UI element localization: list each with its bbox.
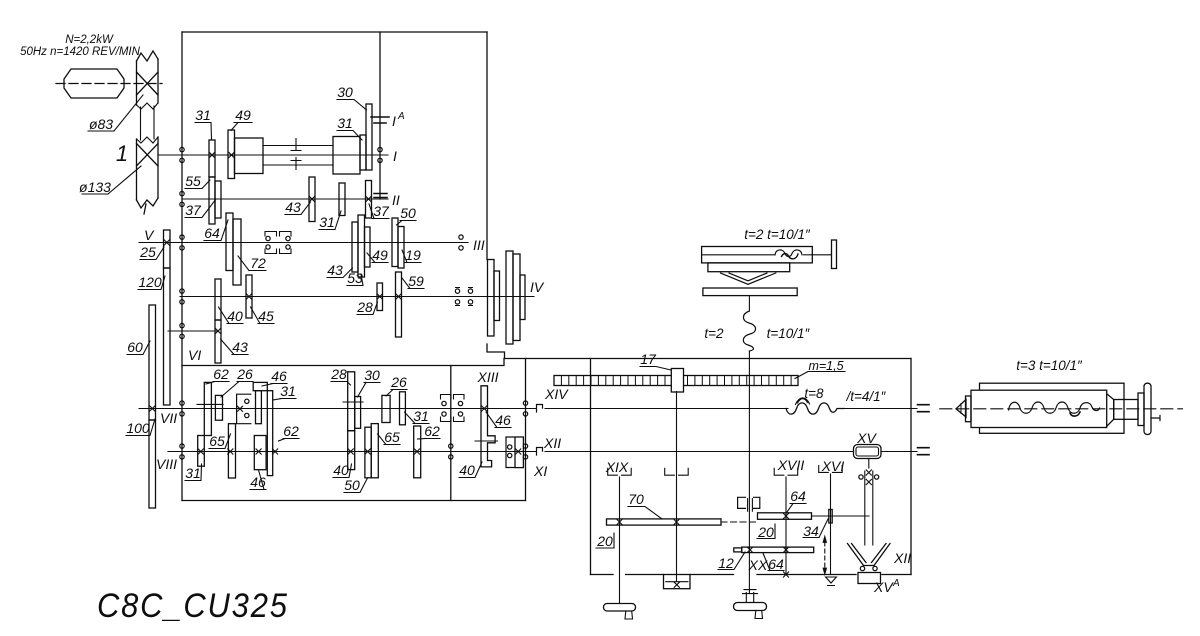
bearings XIV/XII at feed box right wall — [523, 401, 527, 416]
svg-text:28: 28 — [330, 366, 347, 382]
belt top break zigzag — [137, 51, 159, 61]
double dog clutch on shaft III — [265, 232, 291, 254]
gear 62 on VIII right — [414, 426, 421, 478]
right cone — [1107, 394, 1114, 427]
svg-text:/t=4/1″: /t=4/1″ — [846, 389, 887, 404]
dashed centerline — [940, 408, 1183, 410]
break marks end of XIV — [918, 405, 930, 412]
svg-text:72: 72 — [250, 255, 266, 271]
motor M1 body — [64, 69, 124, 98]
svg-text:C8C_CU325: C8C_CU325 — [97, 587, 289, 625]
svg-text:VI: VI — [188, 347, 201, 363]
svg-text:17: 17 — [640, 351, 657, 367]
fixed marks on shaft II — [309, 196, 314, 201]
gear 46 on VIII — [254, 436, 266, 470]
gear 43 on shaft II — [309, 177, 315, 222]
shaft VI stub — [168, 330, 219, 332]
svg-text:64: 64 — [204, 225, 220, 241]
hanger bracket shaft XVIII — [665, 468, 689, 475]
svg-text:100: 100 — [126, 420, 150, 436]
svg-text:31: 31 — [280, 383, 296, 399]
svg-text:34: 34 — [803, 523, 819, 539]
svg-text:31: 31 — [319, 214, 335, 230]
svg-text:62: 62 — [424, 423, 440, 439]
screw line inside — [702, 254, 775, 256]
worm housing box at bottom — [664, 575, 691, 589]
center point triangle — [956, 400, 966, 418]
svg-text:31: 31 — [337, 115, 353, 131]
svg-text:25: 25 — [139, 244, 156, 260]
lower bar left stub 12 — [734, 548, 742, 552]
svg-text:46: 46 — [495, 412, 511, 428]
shaft VIII / XII — [168, 451, 536, 453]
feed box left wall lower part — [181, 366, 183, 501]
belt middle break — [137, 103, 159, 143]
apron left wall — [590, 359, 592, 575]
svg-text:50Hz n=1420 REV/MIN: 50Hz n=1420 REV/MIN — [20, 46, 141, 58]
svg-text:t=8: t=8 — [804, 386, 824, 401]
svg-text:I: I — [392, 113, 396, 129]
svg-text:64: 64 — [768, 556, 784, 572]
gear 49 on shaft III — [365, 227, 371, 267]
shaft I — [158, 154, 388, 156]
svg-text:XIX: XIX — [605, 459, 629, 475]
svg-text:I: I — [393, 148, 397, 164]
gear 49 on shaft I — [228, 130, 235, 179]
bearing shaft III right — [459, 235, 463, 250]
svg-text:XVI: XVI — [821, 458, 845, 474]
clutch XI block — [515, 437, 523, 468]
svg-text:37: 37 — [373, 203, 390, 219]
bearing shaft VIII at left wall — [180, 444, 184, 459]
top slide body — [702, 247, 813, 263]
svg-text:t=10/1″: t=10/1″ — [767, 326, 811, 341]
feed box right wall — [525, 359, 527, 501]
vertical shaft XIX — [619, 477, 621, 604]
svg-text:65: 65 — [384, 429, 400, 445]
svg-text:VIII: VIII — [156, 456, 177, 472]
worm XV on shaft XII — [854, 445, 882, 459]
gear 65 on VIII — [228, 424, 235, 478]
svg-text:IV: IV — [530, 279, 545, 295]
svg-text:62: 62 — [213, 366, 229, 382]
lower bar 64/XX — [742, 547, 814, 553]
screw spring t=2 horizontal — [775, 250, 802, 257]
svg-text:t=3 t=10/1″: t=3 t=10/1″ — [1016, 358, 1083, 373]
svg-text:20: 20 — [596, 533, 613, 549]
rod line to worm — [812, 515, 870, 517]
bottom block XVA — [858, 573, 881, 584]
svg-text:t=2: t=2 — [704, 326, 724, 341]
svg-text:49: 49 — [235, 107, 251, 123]
feed box top edge — [182, 359, 504, 366]
spindle chuck disc 3 — [506, 251, 513, 344]
friction clutch ticks on shaft I — [291, 139, 301, 170]
svg-text:53: 53 — [347, 270, 363, 286]
crank rod and handle — [812, 254, 831, 256]
gear XIII shaped bar — [481, 386, 495, 467]
overload clutch C-bracket on VII — [237, 394, 251, 424]
clutch hook on XII at wall — [537, 448, 543, 456]
pulley cross on motor shaft — [137, 72, 159, 95]
svg-text:XIII: XIII — [476, 369, 498, 385]
svg-text:N=2,2kW: N=2,2kW — [65, 34, 114, 46]
svg-text:30: 30 — [337, 84, 353, 100]
svg-text:65: 65 — [209, 433, 225, 449]
quill screw spring t=3 — [1009, 402, 1100, 413]
svg-text:40: 40 — [333, 462, 349, 478]
shaft tick through 62/26 — [197, 403, 223, 405]
gear 26 on VII — [215, 395, 222, 420]
svg-text:VII: VII — [160, 410, 177, 426]
internal vertical line x=450.8 — [450, 366, 452, 501]
gear 31 on VII right — [400, 392, 406, 425]
vertical worm wheel shaft — [868, 459, 870, 469]
bearing on VIII at x450.8 — [449, 444, 453, 459]
gear 26 on VII right — [382, 395, 390, 422]
gear 46 stem — [256, 391, 262, 424]
handle tick — [1151, 416, 1160, 421]
tailstock body box — [980, 383, 1125, 433]
spindle chuck disc 1 — [488, 260, 495, 337]
gear 46 top plate on VII — [253, 382, 267, 390]
stem — [1114, 400, 1138, 420]
headstock right wall lower + step to lower box — [487, 344, 505, 359]
gear 31 on shaft I — [209, 140, 215, 177]
lower-right box top edge — [505, 358, 912, 360]
gear 50 on VIII — [365, 427, 371, 478]
gear 72 on shaft III — [233, 219, 241, 285]
gear 65 on VIII right — [371, 424, 378, 478]
svg-text:XIV: XIV — [544, 386, 569, 402]
gear 43 on shaft III — [352, 222, 358, 272]
gear 100 — [149, 420, 156, 508]
gear 28 on shaft IV — [377, 283, 383, 311]
vertical shaft XVII — [785, 477, 787, 575]
svg-text:XII: XII — [543, 435, 561, 451]
headstock right wall upper — [486, 32, 488, 260]
half-nut V lever — [848, 544, 891, 566]
spindle chuck disc 4 — [513, 254, 520, 341]
svg-text:37: 37 — [185, 202, 202, 218]
quill left steps — [966, 396, 972, 422]
gear 37 left on shaft II — [215, 181, 221, 218]
coupling II bars — [374, 194, 387, 198]
hollow shaft lines between blocks — [263, 146, 333, 166]
svg-text:31: 31 — [195, 107, 211, 123]
svg-text:40: 40 — [227, 308, 243, 324]
hanger bracket XVI — [819, 466, 843, 473]
cone block left on shaft I — [235, 138, 264, 174]
dovetail V — [721, 273, 776, 284]
bearing shaft I at left wall — [180, 147, 184, 162]
svg-text:ø83: ø83 — [89, 116, 113, 132]
svg-text:ø133: ø133 — [79, 179, 111, 195]
svg-text:43: 43 — [285, 199, 301, 215]
svg-text:XI: XI — [533, 463, 547, 479]
bearing shaft VII at left wall — [180, 401, 184, 416]
XIX crank T-handle — [604, 604, 636, 612]
bearing shaft III at left wall — [180, 235, 184, 250]
dashed rod section — [721, 521, 757, 523]
shaft IV — [180, 296, 534, 298]
gear 120 — [164, 268, 171, 405]
vertical shaft XVIII (rack pinion) — [676, 392, 678, 582]
stop triangle under XVI — [826, 577, 837, 586]
vertical shaft XVI — [830, 474, 832, 575]
svg-text:64: 64 — [790, 488, 806, 504]
cone block right on shaft I — [333, 137, 360, 175]
svg-text:55: 55 — [185, 173, 201, 189]
fixed marks — [164, 240, 169, 245]
rack teeth — [561, 376, 791, 386]
svg-text:50: 50 — [400, 205, 416, 221]
shaft tick through XIII gear — [475, 440, 498, 442]
gear 37 right on shaft II — [366, 181, 372, 219]
svg-text:50: 50 — [344, 477, 360, 493]
svg-text:t=2 t=10/1″: t=2 t=10/1″ — [744, 227, 811, 242]
feed box bottom edge — [182, 500, 526, 502]
break marks end of XII — [918, 448, 930, 455]
internal vertical line x=380 (shaft II drive) — [379, 32, 381, 199]
bearing shaft II at left wall — [180, 191, 184, 206]
bearing shaft I right at x380 — [378, 147, 382, 162]
cross slide middle plate — [708, 263, 790, 272]
spindle chuck disc 2 — [494, 271, 500, 321]
spindle chuck disc 5 — [520, 275, 525, 320]
gear 28 on VII — [348, 372, 355, 431]
pinion block 17 — [671, 369, 683, 393]
gear 31 on shaft II — [339, 183, 345, 216]
fixed marks in apron — [617, 519, 622, 524]
svg-text:45: 45 — [258, 308, 274, 324]
svg-text:XII: XII — [893, 550, 911, 566]
quill — [971, 390, 1107, 427]
svg-text:V: V — [144, 227, 155, 243]
feed rod gear bar 70 — [607, 519, 722, 525]
shaft tick through 28/30 — [343, 401, 363, 403]
belt band right edge — [157, 59, 159, 198]
gear 64 on shaft III — [226, 213, 233, 271]
feed direction arrow (XVI) — [824, 542, 826, 570]
gear 31 tall on VII/VIII — [267, 391, 272, 476]
gear 45 on shaft IV — [246, 275, 252, 318]
gear 43 on shaft VI — [215, 320, 221, 363]
svg-text:XX: XX — [748, 557, 768, 573]
svg-text:XV: XV — [856, 430, 877, 446]
gear 60 — [149, 305, 156, 420]
clutch brackets on vertical leadscrew — [738, 497, 760, 508]
svg-text:A: A — [397, 111, 405, 122]
gear 40 on VIII — [348, 431, 355, 470]
svg-text:62: 62 — [283, 423, 299, 439]
svg-text:26: 26 — [236, 366, 253, 382]
rack bar — [554, 376, 798, 386]
lower-right box right wall — [910, 359, 912, 575]
gear 30 on VII — [355, 397, 361, 429]
belt band left edge — [136, 61, 138, 200]
svg-text:III: III — [473, 237, 485, 253]
gear 25 — [164, 230, 171, 268]
belt bottom break zigzag — [137, 198, 159, 214]
motor centerline (dashed) — [56, 83, 162, 85]
pulley cross on shaft I — [137, 144, 159, 167]
svg-text:43: 43 — [327, 262, 343, 278]
svg-text:1: 1 — [116, 141, 128, 166]
hanger bracket XVII — [774, 468, 798, 475]
gear 31 on VIII (sliding block lower) — [198, 436, 205, 467]
svg-text:43: 43 — [232, 339, 248, 355]
fixed marks shaft IV — [377, 294, 382, 299]
gear 62 on VII (sliding block upper) — [204, 382, 211, 435]
t=2 vertical spring screw — [743, 311, 755, 351]
headstock box top edge — [182, 31, 487, 33]
vertical leadscrew shaft (cross slide) — [748, 296, 750, 311]
svg-text:28: 28 — [356, 299, 373, 315]
svg-text:31: 31 — [413, 408, 429, 424]
gear 34 tick — [829, 510, 832, 524]
headstock left wall — [181, 32, 183, 366]
svg-text:70: 70 — [628, 491, 644, 507]
coupling IA bars — [371, 117, 389, 123]
shaft XIV spring section t=8 — [786, 403, 844, 414]
gear 50 on shaft III — [392, 218, 398, 267]
svg-text:31: 31 — [185, 465, 201, 481]
shaft III (with V stub at left) — [139, 242, 468, 244]
svg-text:60: 60 — [127, 339, 143, 355]
clutch XI bracket — [506, 437, 514, 468]
upper bar 64 — [758, 513, 812, 520]
svg-text:12: 12 — [718, 555, 734, 571]
apron bottom edge segments — [591, 574, 912, 576]
fixed marks on VIII — [198, 449, 203, 454]
saddle base plate — [703, 288, 797, 296]
svg-text:49: 49 — [372, 247, 388, 263]
clutch hook on XIV at wall — [537, 405, 543, 413]
bearing shaft IV at left wall — [180, 289, 184, 304]
svg-text:26: 26 — [390, 374, 407, 390]
gear 40 on shaft IV — [215, 279, 221, 320]
center handwheel — [743, 590, 758, 594]
dog clutch pair on VII right — [441, 395, 465, 422]
gear 55 on shaft II — [209, 177, 215, 224]
bearing shaft VI at left wall — [180, 323, 184, 338]
svg-text:m=1,5: m=1,5 — [808, 359, 843, 373]
fixed mark gear43/VI — [215, 328, 220, 333]
svg-text:30: 30 — [364, 367, 380, 383]
gear 59 on shaft IV — [396, 272, 402, 337]
hanger bracket XIX — [608, 468, 632, 475]
svg-text:A: A — [892, 578, 900, 589]
svg-text:59: 59 — [408, 273, 424, 289]
svg-text:XVII: XVII — [777, 457, 805, 473]
gear 30 on shaft I — [366, 104, 372, 170]
gear 19 on shaft III — [398, 227, 404, 269]
svg-text:II: II — [392, 192, 400, 208]
gear 53 on shaft III — [358, 215, 365, 277]
fixed marks on shaft I — [209, 152, 214, 157]
svg-text:40: 40 — [459, 462, 475, 478]
svg-text:120: 120 — [138, 274, 162, 290]
shaft II — [182, 198, 388, 200]
shaft VII / XIV — [139, 408, 536, 410]
svg-text:20: 20 — [757, 524, 774, 540]
handwheel — [1138, 393, 1144, 426]
svg-text:19: 19 — [405, 247, 421, 263]
svg-text:XV: XV — [873, 579, 894, 595]
svg-text:46: 46 — [271, 368, 287, 384]
spindle double bearings right — [455, 289, 459, 304]
gear 31 right on shaft I — [360, 135, 366, 170]
